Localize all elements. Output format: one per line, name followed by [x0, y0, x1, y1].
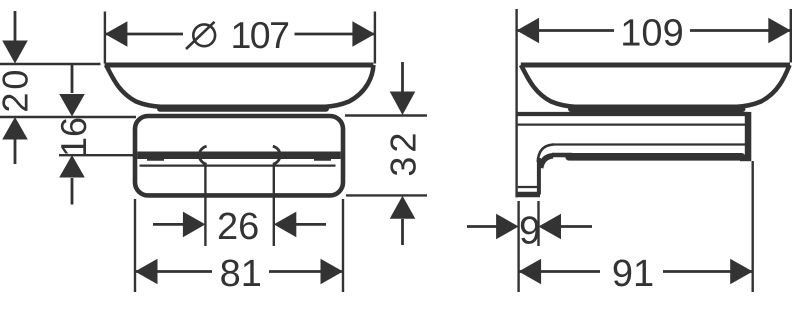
dimension 16: bottom extension line [59, 154, 136, 156]
dimension 32: top extension line [345, 114, 427, 116]
slot left arc [199, 146, 206, 164]
dimension 16: lower arrow [59, 155, 85, 205]
dimension 9: right arrow [539, 214, 593, 240]
svg-text:109: 109 [620, 13, 683, 55]
dish side: bottom resting edge [571, 106, 743, 112]
dimension 109: dimension line with arrows [517, 18, 791, 44]
slot right arc [273, 146, 280, 164]
bracket arm: ledge thin lip [552, 153, 572, 157]
svg-text:91: 91 [612, 253, 654, 295]
dimension 9: right extension line [537, 201, 539, 246]
dimension 26: left extension line [204, 166, 206, 246]
bracket arm: top thin line [552, 143, 745, 145]
dimension 32: bottom extension line [346, 194, 427, 196]
dimension 32: upper arrow [390, 62, 416, 115]
dimension 26: left arrow [153, 212, 205, 238]
dimension 20: top extension line [0, 63, 101, 65]
holder front: divider right tab [314, 154, 331, 161]
bracket: top plate lower thin line [518, 123, 746, 125]
bracket: right end bar [745, 112, 752, 161]
dish side: top rim line [521, 63, 790, 68]
dimension 20/16: middle extension line [0, 116, 136, 118]
bracket arm: corner vertical [537, 158, 541, 195]
bracket arm: outer corner arc [538, 145, 554, 163]
dish side: bowl outline [521, 65, 790, 107]
bracket arm: ledge thick band [569, 153, 742, 161]
holder front: outer rounded body [135, 116, 343, 195]
holder front: tray divider band [137, 151, 340, 159]
bracket foot: inner rung [518, 186, 538, 188]
bracket arm: inner elbow arc [541, 156, 553, 168]
dish front: bottom resting edge [160, 106, 326, 112]
svg-text:20: 20 [0, 67, 36, 113]
svg-text:32: 32 [383, 129, 424, 177]
dimension 81: right extension line [342, 199, 344, 292]
dimension Ø107: diameter symbol [186, 22, 215, 49]
svg-text:81: 81 [220, 253, 262, 295]
svg-text:16: 16 [53, 117, 94, 157]
dimension Ø107: dimension line with arrows [105, 21, 375, 47]
dimension 91: right extension line [752, 161, 754, 292]
bracket: top plate upper edge [517, 112, 748, 116]
dimension 16: upper arrow [59, 63, 85, 117]
holder front: inner shelf line [140, 165, 336, 167]
dimension 9: left arrow [467, 214, 519, 240]
dish front: bowl outline [106, 65, 373, 107]
holder front: divider left tab [147, 154, 164, 161]
dimension 26: right arrow [274, 212, 326, 238]
dimension 109: right extension line [790, 9, 792, 63]
dimension 20: lower arrow [2, 117, 28, 164]
svg-text:9: 9 [519, 210, 541, 253]
dimension 81: left extension line [134, 199, 136, 292]
bracket foot: bottom bar [516, 192, 540, 198]
dimension 26: right extension line [273, 166, 275, 246]
dimension Ø107: left extension line [104, 12, 106, 64]
svg-text:107: 107 [230, 14, 288, 56]
svg-text:26: 26 [217, 206, 259, 248]
dimension 81: dimension line with arrows [135, 259, 343, 285]
wall line / left extension line [515, 9, 517, 197]
bracket arm: band-to-bar step [740, 157, 751, 161]
dimension 32: lower arrow [390, 196, 416, 245]
dish front: top rim line [105, 63, 374, 68]
dimension Ø107: right extension line [374, 12, 376, 64]
dimension 9: left extension line [517, 201, 519, 292]
dimension 20: upper arrow [2, 11, 28, 64]
dimension 91: dimension line with arrows [519, 259, 753, 285]
